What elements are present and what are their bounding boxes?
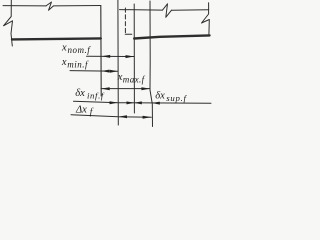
max position line (slanted) (150, 1, 153, 127)
svg-text:x: x (61, 57, 67, 68)
right part left edge + extension (133, 4, 135, 113)
arrow x_nom.f left (102, 55, 111, 58)
arrow Delta x_f left (118, 115, 127, 118)
min position line (117, 0, 119, 125)
arrow x_min.f left (101, 70, 109, 73)
arrows meeting at nominal (diamond) (127, 101, 135, 104)
right part bottom line (thick) (134, 35, 209, 38)
dashed nominal position edge (124, 8, 126, 34)
arrow x_max.f right (141, 87, 150, 90)
svg-text:δx: δx (155, 90, 165, 101)
svg-text:nom.f: nom.f (68, 45, 92, 55)
arrow Delta x_f right (143, 116, 152, 119)
dimension line x_nom.f (87, 55, 135, 57)
dimension line x_max.f (101, 88, 150, 90)
right part top surface line (120, 9, 209, 12)
svg-text:Δx: Δx (75, 104, 87, 115)
left part right edge + extension line (100, 6, 102, 97)
svg-text:x: x (61, 43, 67, 54)
dashed edge foot (125, 33, 132, 35)
dimension line delta row (74, 101, 212, 103)
right part right edge with break (202, 3, 210, 35)
dimension line x_min.f (70, 70, 118, 73)
dimension line Delta x_f (71, 115, 151, 118)
arrow delta sup right (outside) (152, 102, 160, 105)
break zigzag on right top line (163, 4, 172, 17)
arrow x_max.f left (101, 87, 110, 90)
svg-text:inf.f: inf.f (87, 91, 105, 101)
svg-text:max.f: max.f (123, 74, 146, 84)
arrow x_min.f right (110, 70, 118, 73)
left part top surface line (3, 5, 101, 7)
arrow delta inf left (outside) (110, 101, 118, 104)
arrow x_nom.f right (126, 55, 135, 58)
svg-text:δx: δx (75, 88, 85, 99)
svg-text:sup.f: sup.f (166, 93, 187, 103)
svg-text:min.f: min.f (67, 59, 89, 69)
break zigzag on left top line (46, 2, 54, 10)
left part left edge with break (4, 0, 13, 46)
left part bottom line (thick) (12, 38, 101, 39)
